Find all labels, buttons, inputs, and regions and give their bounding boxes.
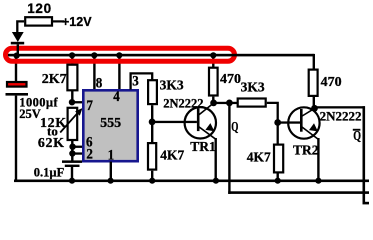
ground rail bottom: [14, 180, 369, 183]
node ground TR1 emitter: [213, 178, 219, 184]
wire pin2 node to capacitor 0.1uF: [71, 147, 73, 161]
svg-text:TR2: TR2: [293, 142, 319, 157]
power bus +12V red highlight annotation: [6, 48, 235, 61]
svg-text:555: 555: [100, 116, 121, 131]
svg-text:3: 3: [132, 73, 139, 89]
resistor 2K7: [67, 65, 77, 91]
node ground 4K7 left: [149, 178, 155, 184]
wire pin 7: [72, 101, 84, 103]
svg-text:470: 470: [220, 72, 241, 87]
wire TR2 base: [278, 121, 300, 123]
wire 4K7 left to ground: [151, 171, 153, 181]
wire TR2 collector to right edge Q-bar: [315, 106, 366, 108]
resistor 4K7 left: [148, 143, 156, 170]
wire capacitor 0.1uF to ground: [71, 167, 73, 181]
svg-text:3K3: 3K3: [160, 78, 184, 93]
svg-text:2N2222: 2N2222: [320, 109, 362, 124]
wire pin 6: [73, 146, 84, 148]
wire diode to bus (over red): [17, 44, 19, 56]
wire 4K7 right to ground: [277, 174, 279, 181]
resistor 3K3 left: [148, 80, 157, 104]
wire 470 left to TR1 collector node: [212, 97, 214, 103]
node pin6 junction: [69, 144, 75, 150]
wire resistor 120 left to diode: [17, 21, 24, 33]
svg-text:3K3: 3K3: [241, 80, 265, 95]
wire 2K7 to pin7 node: [71, 91, 73, 103]
wire pin 2: [72, 152, 83, 154]
transistor TR1 2N2222: [185, 103, 216, 139]
node TR2 base junction: [274, 119, 281, 126]
svg-text:TR1: TR1: [190, 139, 216, 154]
wire 3K3 to TR2 base node: [267, 103, 278, 144]
wire +12V bus horizontal: [8, 54, 314, 57]
svg-text:0.1µF: 0.1µF: [34, 165, 65, 179]
wire Q vertical down: [228, 103, 230, 194]
wire TR1 base: [152, 121, 197, 123]
svg-text:Q: Q: [353, 128, 361, 144]
wire bus to electrolytic capacitor (under red bus): [15, 55, 17, 82]
wire pin 8 (under red bus): [93, 55, 95, 89]
wire 3K3 to TR1 base node: [151, 105, 153, 122]
node ground pin1: [108, 178, 114, 184]
wire right vertical edge: [363, 106, 366, 204]
node ground TR2 emitter: [315, 178, 321, 184]
wire bus to 470 left (under red bus): [212, 55, 214, 68]
svg-text:1: 1: [108, 147, 115, 163]
node ground 4K7 right: [275, 178, 281, 184]
wire pin 4 (under red bus): [118, 55, 120, 89]
svg-text:2K7: 2K7: [42, 72, 67, 87]
svg-text:7: 7: [86, 97, 93, 113]
svg-text:+12V: +12V: [62, 15, 92, 29]
wire capacitor to ground rail: [15, 96, 17, 182]
svg-text:120: 120: [27, 1, 52, 16]
wire bus corner to right 470 resistor: [313, 54, 315, 70]
svg-text:4K7: 4K7: [247, 149, 271, 164]
label Q-bar: [353, 128, 361, 144]
capacitor 1000uf 25V electrolytic: [7, 82, 27, 87]
capacitor 0.1uF: [62, 160, 82, 163]
wire bus to 2K7 (under red bus): [71, 55, 73, 66]
wire TR1 emitter to ground: [215, 138, 217, 181]
node bus pin4 junction: [116, 52, 122, 58]
svg-text:25V: 25V: [19, 107, 41, 121]
node bus diode junction: [14, 53, 20, 59]
node pin7 junction: [69, 99, 75, 105]
resistor 4K7 right: [274, 145, 283, 173]
svg-text:470: 470: [321, 75, 342, 90]
resistor 470 right: [309, 70, 318, 96]
node bus pin8 junction: [91, 52, 97, 58]
IC 555 timer U1: [83, 90, 137, 161]
svg-text:2N2222: 2N2222: [163, 96, 203, 110]
node TR2 collector junction: [311, 105, 318, 112]
wire bottom right stub: [363, 202, 370, 205]
svg-text:4K7: 4K7: [160, 148, 184, 163]
wire Q lower horizontal return: [228, 191, 369, 194]
wire pin 1 to ground: [110, 162, 112, 181]
wire node to 4K7 left: [151, 122, 153, 143]
resistor 120: [25, 17, 52, 25]
diode D1: [12, 32, 24, 42]
wire Q node to 3K3 resistor: [229, 102, 237, 104]
node Q junction: [226, 100, 233, 107]
svg-text:8: 8: [96, 75, 103, 91]
node pin2 junction: [69, 150, 75, 156]
wire collector node to Q node: [214, 102, 230, 104]
wire TR2 emitter to ground: [317, 138, 319, 181]
wire resistor 120 to +12V label: [53, 20, 64, 22]
svg-text:62K: 62K: [38, 136, 65, 151]
svg-text:Q: Q: [231, 121, 238, 135]
node TR1 collector junction: [210, 100, 217, 107]
resistor 470 left: [209, 68, 218, 96]
node ground 0.1uF: [69, 178, 75, 184]
wire pin 3: [131, 73, 153, 89]
transistor TR2 2N2222: [288, 107, 319, 139]
node TR1 base junction: [149, 119, 156, 126]
wire 470 right to TR2 collector node: [313, 97, 315, 108]
wire varres to pin6 node: [71, 141, 73, 147]
node bus 2K7 junction: [69, 52, 75, 58]
svg-text:4: 4: [113, 88, 120, 104]
node bus 470 junction: [210, 52, 216, 58]
variable resistor 12K-62K: [68, 108, 78, 140]
svg-text:2: 2: [86, 146, 93, 162]
resistor 3K3 horizontal: [238, 99, 266, 107]
